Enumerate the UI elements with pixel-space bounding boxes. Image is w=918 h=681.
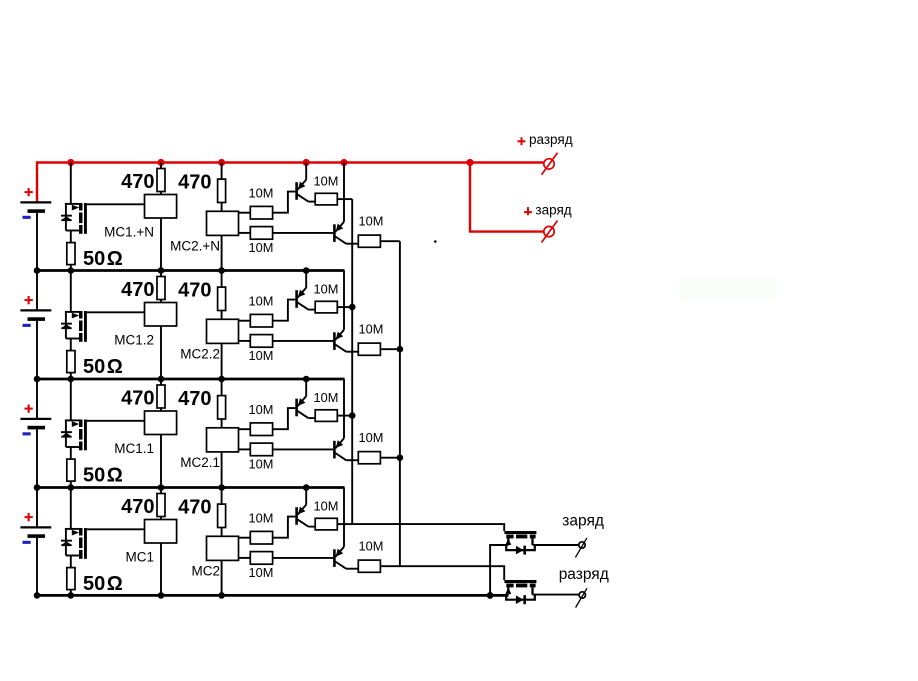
wire: VT3.2 collector to R3.5 bbox=[308, 417, 315, 419]
resistor R2.1 470 bbox=[160, 271, 162, 277]
wire: U2.1 bottom to rail below bbox=[160, 326, 162, 379]
wire: R1.6 to discharge-gate chain bbox=[380, 240, 400, 242]
wire: VT4.3 collector to R4.6 bbox=[346, 568, 358, 570]
wire: U1.2 bottom to rail below bbox=[221, 235, 223, 270]
node: negative supply rail (bottom) bbox=[37, 594, 509, 597]
svg-text:MC1.1: MC1.1 bbox=[114, 441, 154, 456]
svg-text:10M: 10M bbox=[314, 390, 339, 405]
wire: R2.5 to charge-gate chain bbox=[337, 306, 352, 308]
terminal: +заряд charge output bbox=[544, 226, 554, 236]
svg-text:10M: 10M bbox=[359, 430, 384, 445]
resistor R4.6 10M bbox=[358, 560, 380, 572]
svg-text:10M: 10M bbox=[249, 457, 274, 472]
wire: battery G1 minus to rail below bbox=[36, 213, 38, 271]
wire: U3.1 bottom to rail below bbox=[160, 435, 162, 488]
junction: red rail dots bbox=[67, 159, 74, 166]
wire: R1.7 to rail below bbox=[70, 265, 72, 271]
diode: body diode of VT6 (разряд switch) bbox=[506, 595, 535, 600]
wire: VT3.1 gate to MC box bbox=[87, 420, 145, 422]
wire: VT1.1 source to R1.7 bbox=[70, 231, 72, 243]
terminal: разряд output bbox=[579, 592, 585, 598]
transistor VT3.3 PNP bbox=[333, 441, 336, 459]
svg-text:10M: 10M bbox=[249, 402, 274, 417]
svg-text:10M: 10M bbox=[359, 322, 384, 337]
wire: U1.1 bottom to rail below bbox=[160, 218, 162, 271]
resistor R2.6 10M bbox=[358, 343, 380, 355]
op-amp/optocoupler U4.2 MC2 bbox=[207, 536, 239, 560]
svg-text:разряд: разряд bbox=[559, 566, 609, 583]
transistor VT1.1 shunt MOSFET with body diode bbox=[70, 163, 72, 204]
wire: R3.4 to VT3.3 base bbox=[273, 448, 334, 450]
wire: VT2.2 emitter to rail 2 bbox=[305, 271, 307, 288]
wire: R3.7 to rail below bbox=[70, 481, 72, 487]
transistor VT1.3 PNP bbox=[333, 224, 336, 242]
battery G4 bbox=[36, 488, 38, 528]
svg-text:470: 470 bbox=[178, 388, 211, 410]
node: battery interconnect rail 4 bbox=[37, 486, 345, 489]
node: positive supply rail (red) bbox=[37, 163, 543, 203]
junction: dots on rail 4 bbox=[34, 484, 41, 491]
op-amp/optocoupler U4.1 MC1 bbox=[145, 520, 177, 544]
resistor R1.7 50Ω bbox=[67, 243, 75, 265]
wire: R1.2 to optocoupler MC2.+N bbox=[221, 203, 223, 212]
resistor R4.4 10M bbox=[239, 557, 251, 559]
svg-text:10M: 10M bbox=[314, 174, 339, 189]
svg-text:10M: 10M bbox=[249, 348, 274, 363]
wire: R1.5 to charge-gate chain bbox=[337, 198, 352, 200]
wire: R4.1 to optocoupler MC1 bbox=[160, 517, 162, 520]
diode: body diode of VT5 (заряд switch) bbox=[506, 545, 535, 550]
transistor VT3.1 shunt MOSFET with body diode bbox=[70, 379, 72, 420]
wire: R1.1 to optocoupler MC1.+N bbox=[160, 192, 162, 195]
svg-text:MC1.2: MC1.2 bbox=[114, 332, 154, 347]
resistor R1.5 10M bbox=[315, 193, 337, 205]
wire: R3.1 to optocoupler MC1.1 bbox=[160, 408, 162, 411]
wire: VT1.3 collector to R1.6 bbox=[346, 243, 358, 245]
wire: VT3.3 collector to R3.6 bbox=[346, 459, 358, 461]
resistor R1.6 10M bbox=[358, 235, 380, 247]
transistor VT1.2 PNP bbox=[295, 182, 298, 200]
svg-text:MC2: MC2 bbox=[191, 564, 220, 579]
wire: R2.6 to discharge-gate chain bbox=[380, 348, 400, 350]
svg-text:470: 470 bbox=[178, 172, 211, 194]
wire: VT3.3 emitter to rail 3 bbox=[343, 379, 345, 438]
wire: U4.2 bottom to rail below bbox=[221, 560, 223, 595]
wire: U2.2 bottom to rail below bbox=[221, 343, 223, 379]
svg-text:50Ω: 50Ω bbox=[83, 573, 123, 595]
battery G2 bbox=[36, 271, 38, 311]
op-amp/optocoupler U3.2 MC2.1 bbox=[207, 428, 239, 452]
node: battery interconnect rail 3 bbox=[37, 378, 345, 381]
svg-text:470: 470 bbox=[178, 497, 211, 519]
transistor VT2.3 PNP bbox=[333, 332, 336, 350]
resistor R1.1 470 bbox=[160, 163, 162, 169]
wire: VT4.2 emitter to rail 4 bbox=[305, 488, 307, 505]
svg-text:MC1: MC1 bbox=[125, 549, 154, 564]
wire: R3.5 to charge-gate chain bbox=[337, 415, 352, 417]
transistor VT4.1 shunt MOSFET with body diode bbox=[70, 488, 72, 529]
junction: chain dots bbox=[349, 304, 356, 311]
op-amp/optocoupler U1.1 MC1.+N bbox=[145, 195, 177, 219]
junction: dots on rail 3 bbox=[34, 376, 41, 383]
transistor VT2.1 shunt MOSFET with body diode bbox=[70, 271, 72, 312]
wire: R2.4 to VT2.3 base bbox=[273, 340, 334, 342]
resistor R1.2 470 bbox=[221, 163, 223, 180]
wire: R1.4 to VT1.3 base bbox=[273, 232, 334, 234]
wire: VT4.1 gate to MC box bbox=[87, 528, 145, 530]
svg-text:470: 470 bbox=[121, 279, 154, 301]
op-amp/optocoupler U3.1 MC1.1 bbox=[145, 411, 177, 435]
resistor R1.4 10M bbox=[239, 232, 251, 234]
wire: VT2.1 gate to MC box bbox=[87, 311, 145, 313]
wire: VT2.3 collector to R2.6 bbox=[346, 351, 358, 353]
wire: VT1.2 collector to R1.5 bbox=[308, 201, 315, 203]
wire: R4.4 to VT4.3 base bbox=[273, 557, 334, 559]
svg-text:470: 470 bbox=[121, 171, 154, 193]
svg-text:470: 470 bbox=[121, 496, 154, 518]
wire: R4.6 to discharge-gate chain bbox=[380, 565, 400, 567]
transistor VT4.3 PNP bbox=[333, 549, 336, 567]
resistor R2.2 470 bbox=[221, 271, 223, 288]
svg-text:10M: 10M bbox=[314, 499, 339, 514]
resistor R3.7 50Ω bbox=[67, 459, 75, 481]
resistor R4.1 470 bbox=[160, 488, 162, 494]
resistor R3.1 470 bbox=[160, 379, 162, 385]
resistor R4.7 50Ω bbox=[67, 568, 75, 590]
node: discharge-gate common chain (wired OR of R*.6) bbox=[400, 241, 504, 580]
svg-text:10M: 10M bbox=[249, 240, 274, 255]
wire: VT2.2 collector to R2.5 bbox=[308, 309, 315, 311]
wire: U4.1 bottom to rail below bbox=[160, 543, 162, 595]
node: battery interconnect rail 2 bbox=[37, 269, 345, 272]
resistor R1.3 10M bbox=[239, 212, 251, 214]
wire: VT2.1 source to R2.7 bbox=[70, 339, 72, 351]
terminal: +разряд discharge output bbox=[544, 159, 554, 169]
resistor R2.5 10M bbox=[315, 301, 337, 313]
wire: R2.3 to VT2.2 base bbox=[273, 300, 296, 321]
svg-text:заряд: заряд bbox=[535, 202, 571, 217]
label: + разряд bbox=[518, 140, 526, 142]
wire: faint erased patch bbox=[681, 277, 777, 301]
wire: R4.7 to rail below bbox=[70, 590, 72, 596]
wire: battery G4 minus to rail below bbox=[36, 538, 38, 596]
resistor R3.4 10M bbox=[239, 448, 251, 450]
transistor VT5 (заряд switch) output MOSFET bbox=[504, 531, 536, 534]
wire: VT4.1 source to R4.7 bbox=[70, 556, 72, 568]
wire: VT4.2 collector to R4.5 bbox=[308, 526, 315, 528]
svg-text:470: 470 bbox=[121, 388, 154, 410]
wire: R2.2 to optocoupler MC2.2 bbox=[221, 311, 223, 320]
label: + заряд bbox=[524, 211, 532, 213]
svg-text:50Ω: 50Ω bbox=[83, 464, 123, 486]
wire: VT3.1 source to R3.7 bbox=[70, 447, 72, 459]
battery G3 bbox=[36, 379, 38, 419]
op-amp/optocoupler U1.2 MC2.+N bbox=[207, 211, 239, 235]
wire: R2.1 to optocoupler MC1.2 bbox=[160, 300, 162, 303]
resistor R4.5 10M bbox=[315, 518, 337, 530]
svg-text:10M: 10M bbox=[249, 186, 274, 201]
node: charge-gate common chain (wired OR of R*.5) bbox=[352, 199, 504, 531]
wire: R4.5 to charge-gate chain bbox=[337, 523, 352, 525]
svg-text:разряд: разряд bbox=[529, 132, 573, 147]
wire: VT1.1 gate to MC box bbox=[87, 203, 145, 205]
resistor R3.6 10M bbox=[358, 452, 380, 464]
svg-text:MC1.+N: MC1.+N bbox=[104, 224, 154, 239]
svg-text:10M: 10M bbox=[359, 539, 384, 554]
wire: U3.2 bottom to rail below bbox=[221, 452, 223, 488]
transistor VT2.2 PNP bbox=[295, 290, 298, 308]
resistor R2.4 10M bbox=[239, 340, 251, 342]
svg-text:10M: 10M bbox=[314, 282, 339, 297]
wire: VT5 drain to заряд terminal bbox=[533, 544, 579, 546]
wire: battery G3 minus to rail below bbox=[36, 429, 38, 487]
svg-text:50Ω: 50Ω bbox=[83, 356, 123, 378]
wire: R4.2 to optocoupler MC2 bbox=[221, 528, 223, 537]
svg-text:MC2.1: MC2.1 bbox=[180, 455, 220, 470]
wire: VT2.3 emitter to rail 2 bbox=[343, 271, 345, 330]
junction bbox=[487, 592, 494, 599]
transistor VT3.2 PNP bbox=[295, 399, 298, 417]
junction: dots on rail 5 bbox=[34, 592, 41, 599]
svg-text:10M: 10M bbox=[249, 565, 274, 580]
resistor R2.7 50Ω bbox=[67, 351, 75, 373]
wire: charge branch from rail down to charge terminal (red) bbox=[470, 163, 543, 232]
svg-text:10M: 10M bbox=[249, 294, 274, 309]
svg-text:MC2.+N: MC2.+N bbox=[170, 239, 220, 254]
battery G1 bbox=[20, 201, 51, 203]
wire: R3.6 to discharge-gate chain bbox=[380, 457, 400, 459]
wire: VT6 drain to разряд terminal bbox=[533, 594, 579, 596]
svg-text:заряд: заряд bbox=[562, 512, 604, 529]
svg-text:10M: 10M bbox=[249, 511, 274, 526]
svg-text:10M: 10M bbox=[359, 214, 384, 229]
svg-text:MC2.2: MC2.2 bbox=[180, 347, 220, 362]
terminal: заряд output bbox=[579, 542, 585, 548]
resistor R3.3 10M bbox=[239, 428, 251, 430]
op-amp/optocoupler U2.2 MC2.2 bbox=[207, 319, 239, 343]
wire: R3.2 to optocoupler MC2.1 bbox=[221, 419, 223, 428]
wire: VT5 source to bottom rail bbox=[490, 545, 508, 595]
svg-text:50Ω: 50Ω bbox=[83, 248, 123, 270]
wire: VT1.2 emitter to rail 1 bbox=[305, 163, 307, 180]
junction: dots on rail 2 bbox=[34, 267, 41, 274]
wire: VT1.3 emitter to rail 1 bbox=[343, 163, 345, 222]
wire: R1.3 to VT1.2 base bbox=[273, 192, 296, 213]
resistor R2.3 10M bbox=[239, 320, 251, 322]
resistor R4.3 10M bbox=[239, 537, 251, 539]
wire: R3.3 to VT3.2 base bbox=[273, 408, 296, 429]
wire: R4.3 to VT4.2 base bbox=[273, 517, 296, 538]
node: stray ink dot bbox=[434, 240, 437, 243]
junction: chain dots bbox=[397, 346, 404, 353]
wire: R2.7 to rail below bbox=[70, 373, 72, 379]
wire: battery G2 minus to rail below bbox=[36, 321, 38, 379]
transistor VT4.2 PNP bbox=[295, 507, 298, 525]
wire: VT4.3 emitter to rail 4 bbox=[343, 488, 345, 547]
wire: VT3.2 emitter to rail 3 bbox=[305, 379, 307, 396]
resistor R3.5 10M bbox=[315, 410, 337, 422]
resistor R4.2 470 bbox=[221, 488, 223, 505]
svg-text:470: 470 bbox=[178, 280, 211, 302]
op-amp/optocoupler U2.1 MC1.2 bbox=[145, 303, 177, 327]
resistor R3.2 470 bbox=[221, 379, 223, 396]
transistor VT6 (разряд switch) output MOSFET bbox=[504, 580, 536, 583]
